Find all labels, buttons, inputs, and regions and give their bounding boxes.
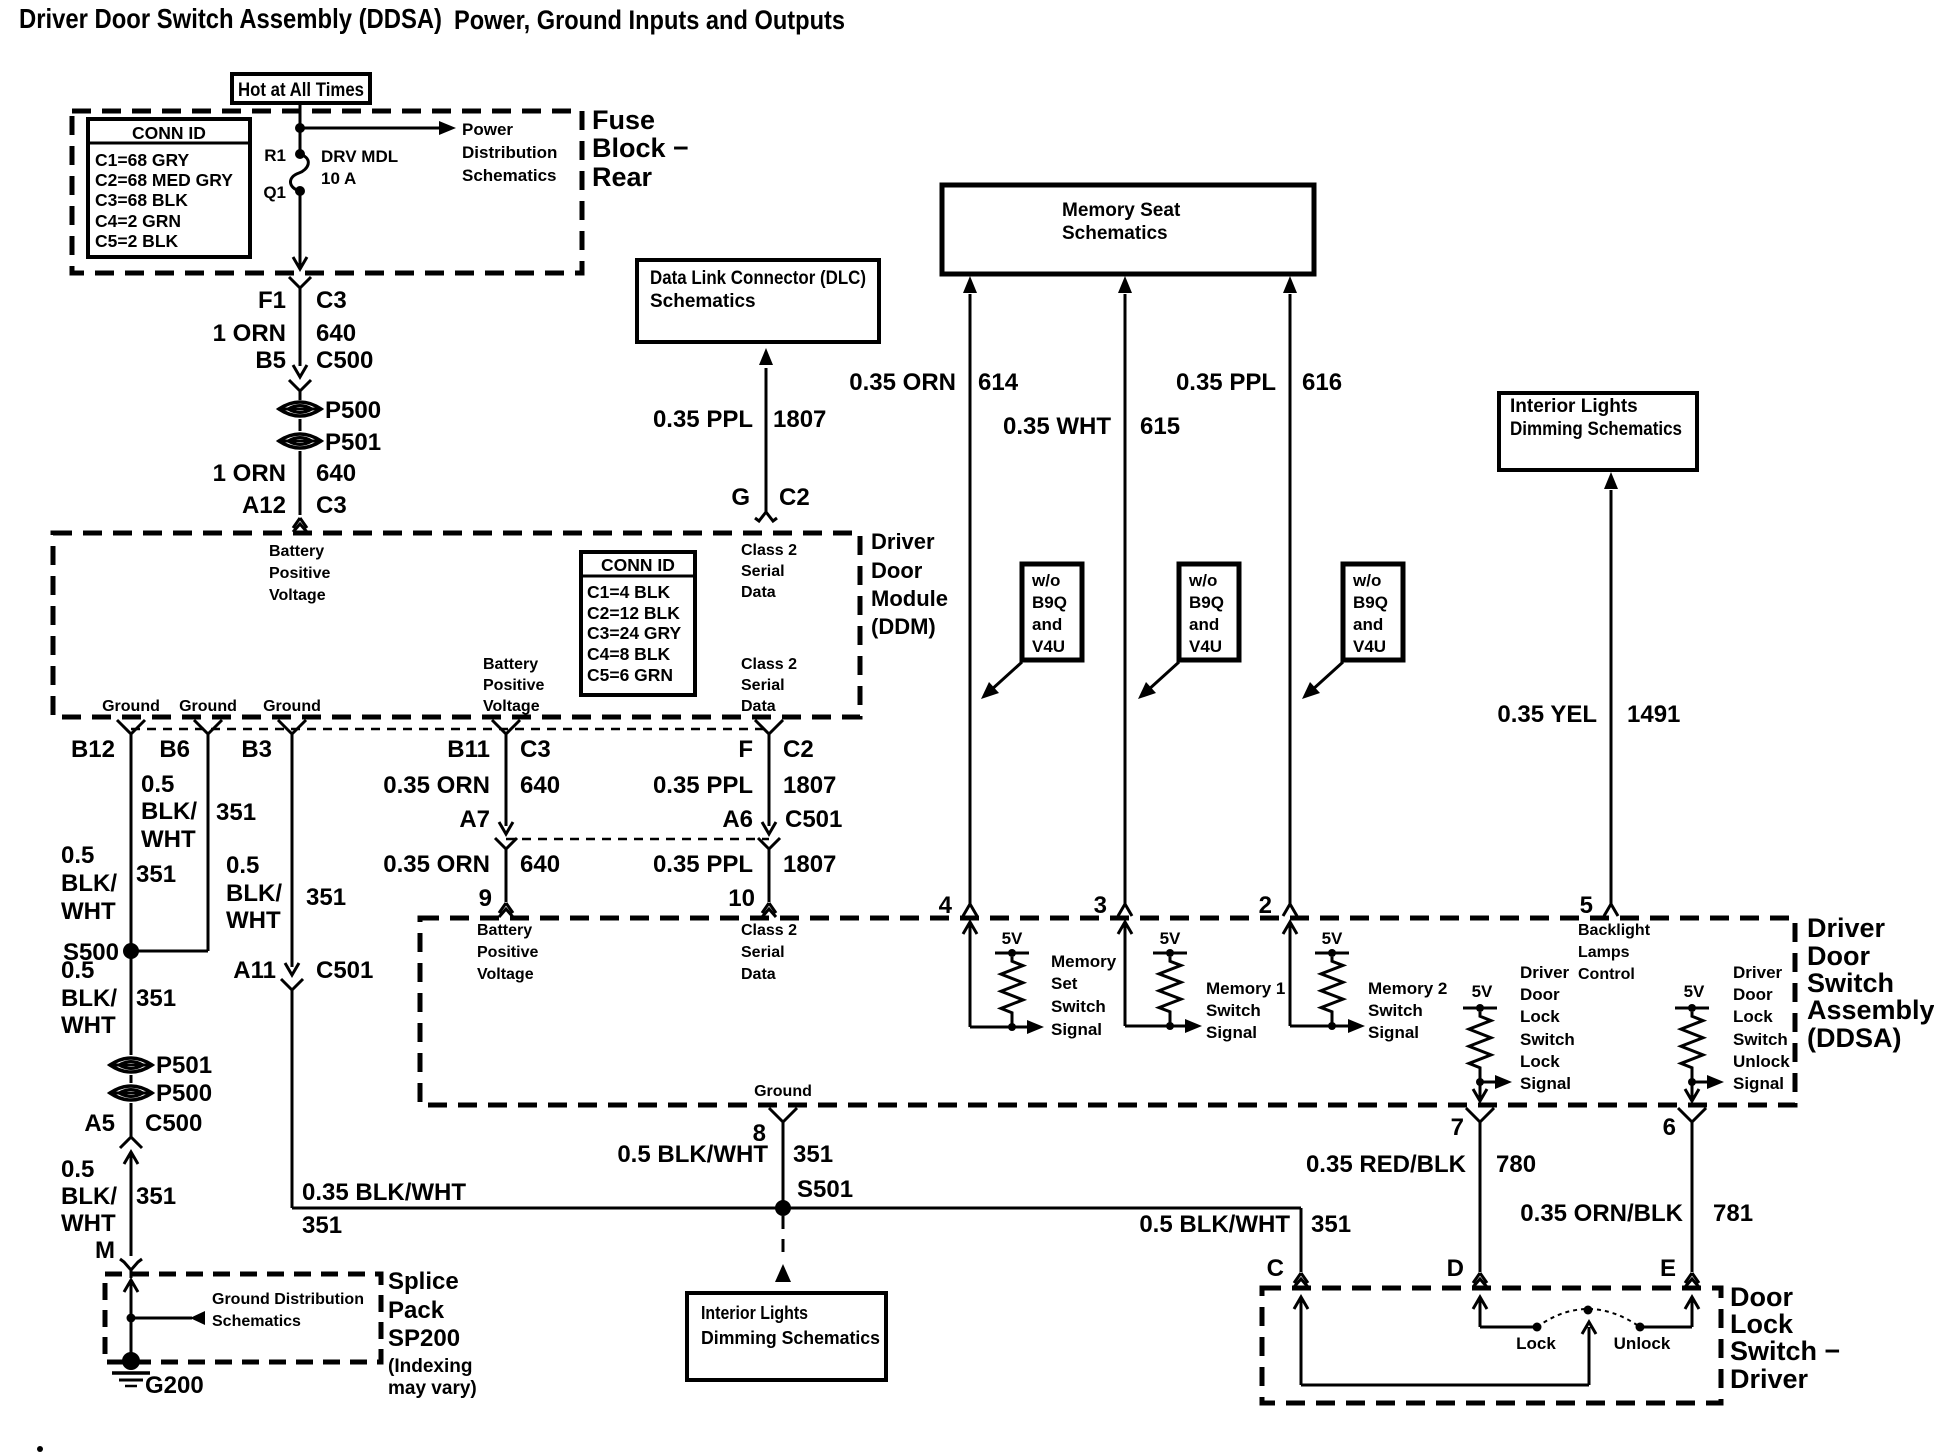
svg-text:Signal: Signal <box>1520 1074 1571 1093</box>
svg-text:Data Link Connector (DLC): Data Link Connector (DLC) <box>650 268 866 289</box>
svg-text:Signal: Signal <box>1368 1023 1419 1042</box>
svg-text:5V: 5V <box>1684 982 1705 1001</box>
option tag w/o B9Q and V4U (2) <box>1179 564 1239 660</box>
svg-text:640: 640 <box>316 460 356 487</box>
svg-text:Fuse: Fuse <box>592 105 655 135</box>
reference arrow to ground distribution schematics <box>131 1317 192 1320</box>
wire F1 to B5 labels 1 ORN 640 <box>299 288 302 366</box>
svg-text:Switch −: Switch − <box>1730 1336 1840 1366</box>
svg-text:351: 351 <box>136 861 176 888</box>
svg-text:C5=6 GRN: C5=6 GRN <box>587 665 673 685</box>
svg-text:C3: C3 <box>520 736 551 763</box>
svg-text:0.5: 0.5 <box>141 771 174 798</box>
inline connector row C501 dashed line <box>506 838 769 841</box>
svg-text:Signal: Signal <box>1733 1074 1784 1093</box>
wire E to unlock contact <box>1685 1297 1699 1309</box>
switch pivot arm <box>1588 1327 1591 1385</box>
svg-text:C2=12 BLK: C2=12 BLK <box>587 603 680 623</box>
svg-text:616: 616 <box>1302 369 1342 396</box>
pin D into door lock switch <box>1473 1273 1480 1283</box>
svg-text:P500: P500 <box>325 397 381 424</box>
svg-text:(DDSA): (DDSA) <box>1807 1023 1902 1053</box>
svg-text:Ground Distribution: Ground Distribution <box>212 1291 364 1308</box>
svg-text:C3: C3 <box>316 287 347 314</box>
svg-text:B9Q: B9Q <box>1032 593 1067 612</box>
connector F C2 on DDM bottom <box>755 720 769 734</box>
node junction splice pack <box>127 1314 136 1323</box>
svg-text:Door: Door <box>1733 985 1773 1004</box>
svg-text:Dimming Schematics: Dimming Schematics <box>701 1327 880 1348</box>
connector B5 C500 <box>293 365 307 377</box>
splice S500 <box>123 943 139 959</box>
svg-text:10: 10 <box>728 885 755 912</box>
pin 7 connector below DDSA <box>1466 1108 1480 1122</box>
svg-text:C4=8 BLK: C4=8 BLK <box>587 644 671 664</box>
svg-text:351: 351 <box>216 799 256 826</box>
svg-text:Driver: Driver <box>1733 963 1783 982</box>
svg-text:P500: P500 <box>156 1080 212 1107</box>
connector G C2 on DDM top <box>755 512 766 521</box>
svg-text:351: 351 <box>793 1141 833 1168</box>
svg-text:Splice: Splice <box>388 1268 459 1295</box>
wire unlock signal to pin 6 <box>1685 1089 1699 1101</box>
wire into grommets <box>299 391 302 400</box>
svg-text:Data: Data <box>741 698 776 715</box>
svg-text:0.35 PPL: 0.35 PPL <box>653 851 753 878</box>
svg-text:M: M <box>95 1237 115 1264</box>
wire P501 to A12 labels 1 ORN 640 <box>299 451 302 515</box>
svg-text:Signal: Signal <box>1051 1020 1102 1039</box>
svg-text:and: and <box>1032 615 1062 634</box>
svg-text:Data: Data <box>741 966 776 983</box>
wire class 2 serial data to DLC labels 0.35 PPL 1807 <box>765 368 768 512</box>
svg-text:780: 780 <box>1496 1151 1536 1178</box>
svg-text:C3: C3 <box>316 492 347 519</box>
svg-text:B12: B12 <box>71 736 115 763</box>
svg-text:Switch: Switch <box>1206 1001 1261 1020</box>
svg-text:Schematics: Schematics <box>1062 223 1168 244</box>
wire S500 to grommets labels 0.5 BLK/WHT 351 <box>130 951 133 1055</box>
svg-text:Ground: Ground <box>754 1083 812 1100</box>
fuse R1 DRV MDL 10 A <box>295 149 305 159</box>
wire branch to Power Distribution Schematics with arrow <box>300 127 440 130</box>
driver door module DDM dashed box <box>53 533 860 717</box>
svg-text:1807: 1807 <box>783 851 836 878</box>
svg-text:0.35 ORN: 0.35 ORN <box>849 369 956 396</box>
svg-text:Driver: Driver <box>1807 913 1886 943</box>
svg-text:A7: A7 <box>459 806 490 833</box>
svg-text:A6: A6 <box>722 806 753 833</box>
svg-text:A12: A12 <box>242 492 286 519</box>
svg-text:Signal: Signal <box>1206 1023 1257 1042</box>
svg-text:Positive: Positive <box>483 677 544 694</box>
svg-text:B3: B3 <box>241 736 272 763</box>
svg-text:5V: 5V <box>1160 929 1181 948</box>
svg-text:0.35 PPL: 0.35 PPL <box>1176 369 1276 396</box>
svg-text:0.5: 0.5 <box>61 957 94 984</box>
wire bend to pin C labels 0.5 BLK/WHT 351 <box>1300 1208 1303 1272</box>
wire F to A6 labels 0.35 PPL 1807 <box>768 732 771 826</box>
svg-text:C2: C2 <box>779 484 810 511</box>
svg-text:V4U: V4U <box>1032 637 1065 656</box>
wire A6 to pin 10 labels 0.35 PPL 1807 <box>768 849 771 902</box>
svg-text:1807: 1807 <box>783 772 836 799</box>
node lock contact <box>1533 1323 1542 1332</box>
svg-text:10 A: 10 A <box>321 169 356 188</box>
svg-text:0.35 WHT: 0.35 WHT <box>1003 413 1111 440</box>
svg-text:Door: Door <box>1520 985 1560 1004</box>
svg-text:Hot at All Times: Hot at All Times <box>238 80 364 101</box>
svg-text:Control: Control <box>1578 966 1635 983</box>
svg-text:C3=68 BLK: C3=68 BLK <box>95 190 188 210</box>
svg-text:0.5 BLK/WHT: 0.5 BLK/WHT <box>617 1141 768 1168</box>
svg-text:3: 3 <box>1094 892 1107 919</box>
svg-text:A11: A11 <box>233 957 276 984</box>
svg-text:C2=68 MED GRY: C2=68 MED GRY <box>95 170 233 190</box>
fuse block - rear dashed box <box>72 111 582 273</box>
wire C common inside door lock switch <box>1294 1297 1308 1309</box>
svg-text:C500: C500 <box>145 1110 202 1137</box>
svg-text:E: E <box>1660 1255 1676 1282</box>
svg-text:Dimming Schematics: Dimming Schematics <box>1510 419 1682 440</box>
svg-text:Unlock: Unlock <box>1733 1052 1790 1071</box>
svg-text:WHT: WHT <box>61 1210 116 1237</box>
wire A7 to pin 9 labels 0.35 ORN 640 <box>505 849 508 902</box>
decorative dot <box>37 1446 43 1452</box>
splice pack SP200 dashed box <box>105 1274 381 1362</box>
grommet P501 (left) <box>110 1058 152 1072</box>
svg-text:V4U: V4U <box>1353 637 1386 656</box>
wire fuse output down to box edge <box>299 191 302 268</box>
svg-text:0.35 ORN/BLK: 0.35 ORN/BLK <box>1520 1200 1683 1227</box>
svg-text:F: F <box>738 736 753 763</box>
ground G200 <box>122 1352 140 1370</box>
svg-text:0.35 ORN: 0.35 ORN <box>383 851 490 878</box>
connector A7 C501 <box>499 822 513 834</box>
svg-text:351: 351 <box>136 985 176 1012</box>
svg-text:Set: Set <box>1051 974 1078 993</box>
svg-text:BLK/: BLK/ <box>61 1183 117 1210</box>
svg-text:V4U: V4U <box>1189 637 1222 656</box>
svg-text:2: 2 <box>1259 892 1272 919</box>
svg-text:C501: C501 <box>785 806 842 833</box>
connector M into splice pack <box>120 1259 131 1270</box>
wire pin 8 to splice S501 labels 0.5 BLK/WHT 351 <box>782 1120 785 1208</box>
svg-text:Class 2: Class 2 <box>741 656 797 673</box>
switch throw dashed arc <box>1537 1309 1640 1327</box>
svg-text:640: 640 <box>520 851 560 878</box>
svg-text:Memory Seat: Memory Seat <box>1062 200 1181 221</box>
table CONN ID (DDM) <box>581 552 695 695</box>
connector B11 C3 on DDM bottom <box>492 720 506 734</box>
pin A12 C3 into DDM <box>293 518 300 528</box>
svg-text:Lock: Lock <box>1516 1334 1556 1353</box>
svg-text:Memory: Memory <box>1051 952 1117 971</box>
svg-text:5V: 5V <box>1002 929 1023 948</box>
unlock signal output arrow <box>1692 1081 1710 1084</box>
pin 8 ground connector below DDSA <box>769 1108 783 1122</box>
svg-text:C501: C501 <box>316 957 373 984</box>
svg-text:0.35 PPL: 0.35 PPL <box>653 772 753 799</box>
svg-text:Voltage: Voltage <box>483 698 540 715</box>
svg-text:640: 640 <box>316 320 356 347</box>
svg-text:Lock: Lock <box>1520 1007 1560 1026</box>
svg-text:9: 9 <box>479 885 492 912</box>
svg-text:Positive: Positive <box>269 565 330 582</box>
connector B3 on DDM bottom <box>278 720 292 734</box>
svg-text:B11: B11 <box>447 736 490 763</box>
connector A6 C501 <box>762 822 776 834</box>
svg-text:WHT: WHT <box>61 1012 116 1039</box>
svg-text:Distribution: Distribution <box>462 143 557 162</box>
svg-text:B9Q: B9Q <box>1353 593 1388 612</box>
pin 6 connector below DDSA <box>1678 1108 1692 1122</box>
svg-text:C: C <box>1267 1255 1284 1282</box>
svg-text:Switch: Switch <box>1733 1030 1788 1049</box>
svg-text:B6: B6 <box>159 736 190 763</box>
svg-text:C4=2 GRN: C4=2 GRN <box>95 211 181 231</box>
wire B6 to S500 labels 0.5 BLK/WHT 351 <box>207 732 210 951</box>
svg-text:CONN ID: CONN ID <box>132 123 206 143</box>
svg-text:Door: Door <box>871 558 923 583</box>
wire D to lock contact <box>1473 1297 1487 1309</box>
wire memory 1 switch signal 0.35 WHT 615 pin 3 <box>1118 276 1132 293</box>
grommet P500 <box>279 402 321 416</box>
wire pin 7 to D labels 0.35 RED/BLK 780 <box>1479 1120 1482 1272</box>
node Data Link Connector DLC Schematics <box>637 260 879 342</box>
grommet P500 (left) <box>110 1086 152 1100</box>
memory set switch input wire and arrow <box>963 922 977 934</box>
svg-text:w/o: w/o <box>1188 571 1217 590</box>
svg-text:Serial: Serial <box>741 677 785 694</box>
svg-text:G200: G200 <box>145 1372 204 1399</box>
memory 2 switch input wire and arrow <box>1283 922 1297 934</box>
option tag w/o B9Q and V4U (1) <box>1022 564 1082 660</box>
svg-text:may vary): may vary) <box>388 1378 477 1399</box>
svg-text:WHT: WHT <box>61 898 116 925</box>
svg-text:Lock: Lock <box>1733 1007 1773 1026</box>
svg-text:Class 2: Class 2 <box>741 542 797 559</box>
svg-text:Driver Door Switch Assembly (D: Driver Door Switch Assembly (DDSA) <box>19 3 442 34</box>
pin 9 into DDSA <box>499 903 506 913</box>
svg-text:B9Q: B9Q <box>1189 593 1224 612</box>
wire memory set switch signal 0.35 ORN 614 pin 4 <box>963 276 977 293</box>
svg-text:Switch: Switch <box>1807 968 1894 998</box>
svg-text:351: 351 <box>306 884 346 911</box>
connector A5 C500 <box>124 1152 138 1164</box>
svg-text:Assembly: Assembly <box>1807 995 1934 1025</box>
wire pin 6 to E labels 0.35 ORN/BLK 781 <box>1691 1120 1694 1272</box>
wire A11 down to ground bus <box>291 990 294 1208</box>
connector B12 on DDM bottom <box>117 720 131 734</box>
svg-text:C5=2 BLK: C5=2 BLK <box>95 231 179 251</box>
svg-text:0.5 BLK/WHT: 0.5 BLK/WHT <box>1139 1211 1290 1238</box>
wire memory 2 switch signal 0.35 PPL 616 pin 2 <box>1283 276 1297 293</box>
wire hot feed into fuse block <box>299 103 302 154</box>
svg-text:w/o: w/o <box>1031 571 1060 590</box>
svg-text:6: 6 <box>1663 1114 1676 1141</box>
node unlock contact <box>1636 1323 1645 1332</box>
pin 10 into DDSA <box>762 903 769 913</box>
svg-text:Switch: Switch <box>1520 1030 1575 1049</box>
svg-text:Voltage: Voltage <box>269 587 326 604</box>
svg-text:0.35 PPL: 0.35 PPL <box>653 406 753 433</box>
node Hot at All Times <box>232 74 370 103</box>
svg-text:351: 351 <box>302 1212 342 1239</box>
dashed reference wire to interior lights dimming <box>782 1216 785 1258</box>
svg-text:WHT: WHT <box>141 826 196 853</box>
svg-text:Pack: Pack <box>388 1297 445 1324</box>
grommet P501 <box>279 434 321 448</box>
wire B11 to A7 labels 0.35 ORN 640 <box>505 732 508 826</box>
svg-text:615: 615 <box>1140 413 1180 440</box>
svg-text:5: 5 <box>1580 892 1593 919</box>
svg-text:351: 351 <box>136 1183 176 1210</box>
splice S501 <box>775 1200 791 1216</box>
svg-text:Rear: Rear <box>592 162 653 192</box>
svg-text:DRV MDL: DRV MDL <box>321 147 398 166</box>
svg-text:SP200: SP200 <box>388 1325 460 1352</box>
svg-text:1 ORN: 1 ORN <box>213 320 286 347</box>
svg-text:Memory 2: Memory 2 <box>1368 979 1447 998</box>
svg-text:640: 640 <box>520 772 560 799</box>
wire between left grommets <box>130 1075 133 1083</box>
pin C into door lock switch <box>1294 1273 1301 1283</box>
svg-text:and: and <box>1189 615 1219 634</box>
svg-text:Block −: Block − <box>592 133 689 163</box>
node Interior Lights Dimming Schematics (lower) <box>687 1293 886 1380</box>
svg-text:w/o: w/o <box>1352 571 1381 590</box>
inline connector row C500 dashed line <box>131 728 769 731</box>
svg-text:7: 7 <box>1451 1114 1464 1141</box>
svg-text:Lock: Lock <box>1520 1052 1560 1071</box>
svg-text:Unlock: Unlock <box>1614 1334 1671 1353</box>
svg-text:614: 614 <box>978 369 1019 396</box>
svg-text:BLK/: BLK/ <box>226 880 282 907</box>
svg-text:Memory 1: Memory 1 <box>1206 979 1285 998</box>
svg-text:Switch: Switch <box>1051 997 1106 1016</box>
svg-text:CONN ID: CONN ID <box>601 555 675 575</box>
svg-text:351: 351 <box>1311 1211 1351 1238</box>
wire lock signal to pin 7 <box>1473 1089 1487 1101</box>
svg-text:Module: Module <box>871 586 948 611</box>
svg-text:P501: P501 <box>156 1052 212 1079</box>
svg-text:and: and <box>1353 615 1383 634</box>
svg-text:Schematics: Schematics <box>212 1313 301 1330</box>
svg-text:5V: 5V <box>1322 929 1343 948</box>
svg-text:1491: 1491 <box>1627 701 1680 728</box>
svg-text:C500: C500 <box>316 347 373 374</box>
svg-text:Power: Power <box>462 120 513 139</box>
svg-text:4: 4 <box>939 892 953 919</box>
svg-text:0.35 BLK/WHT: 0.35 BLK/WHT <box>302 1179 466 1206</box>
door lock switch driver dashed box <box>1262 1288 1721 1403</box>
lock signal output arrow <box>1480 1081 1498 1084</box>
svg-text:Door: Door <box>1730 1282 1793 1312</box>
svg-text:0.5: 0.5 <box>61 1156 94 1183</box>
svg-text:A5: A5 <box>84 1110 115 1137</box>
svg-text:G: G <box>731 484 750 511</box>
svg-text:Ground: Ground <box>263 698 321 715</box>
svg-text:Battery: Battery <box>269 543 324 560</box>
svg-text:(Indexing: (Indexing <box>388 1356 472 1377</box>
svg-text:Serial: Serial <box>741 563 785 580</box>
svg-text:C1=68 GRY: C1=68 GRY <box>95 150 190 170</box>
connector F1 C3 <box>289 277 300 288</box>
svg-text:Lamps: Lamps <box>1578 944 1630 961</box>
svg-text:BLK/: BLK/ <box>61 985 117 1012</box>
connector A11 C501 <box>285 963 299 975</box>
svg-text:1 ORN: 1 ORN <box>213 460 286 487</box>
svg-text:Data: Data <box>741 584 776 601</box>
node junction at power branch <box>295 123 305 133</box>
svg-text:D: D <box>1447 1255 1464 1282</box>
node Memory Seat Schematics <box>942 185 1314 274</box>
svg-text:Battery: Battery <box>483 656 538 673</box>
table CONN ID (fuse block) <box>88 119 250 257</box>
node Interior Lights Dimming Schematics (upper) <box>1499 393 1697 470</box>
svg-text:P501: P501 <box>325 429 381 456</box>
svg-text:Positive: Positive <box>477 944 538 961</box>
wire B12 to S500 labels 0.5 BLK/WHT 351 <box>130 732 133 951</box>
svg-text:Q1: Q1 <box>263 183 286 202</box>
svg-text:Driver: Driver <box>871 529 935 554</box>
connector B6 on DDM bottom <box>194 720 208 734</box>
svg-text:Class 2: Class 2 <box>741 922 797 939</box>
svg-text:0.5: 0.5 <box>61 842 94 869</box>
svg-text:WHT: WHT <box>226 907 281 934</box>
wire B3 to A11 labels 0.5 BLK/WHT 351 <box>291 732 294 967</box>
svg-text:0.35 ORN: 0.35 ORN <box>383 772 490 799</box>
svg-text:BLK/: BLK/ <box>61 870 117 897</box>
wire inside splice pack to G200 <box>124 1280 138 1292</box>
svg-text:BLK/: BLK/ <box>141 798 197 825</box>
wire between grommets <box>299 419 302 431</box>
svg-text:Driver: Driver <box>1520 963 1570 982</box>
svg-text:1807: 1807 <box>773 406 826 433</box>
svg-text:0.5: 0.5 <box>226 852 259 879</box>
svg-text:5V: 5V <box>1472 982 1493 1001</box>
svg-text:Serial: Serial <box>741 944 785 961</box>
svg-text:0.35 RED/BLK: 0.35 RED/BLK <box>1306 1151 1467 1178</box>
wire backlight lamps control 0.35 YEL 1491 pin 5 <box>1604 472 1618 489</box>
svg-text:Driver: Driver <box>1730 1364 1809 1394</box>
option tag w/o B9Q and V4U (3) <box>1343 564 1403 660</box>
svg-text:0.35 YEL: 0.35 YEL <box>1497 701 1597 728</box>
svg-text:Power, Ground Inputs and Outpu: Power, Ground Inputs and Outputs <box>454 5 845 35</box>
svg-text:(DDM): (DDM) <box>871 614 936 639</box>
svg-text:Ground: Ground <box>102 698 160 715</box>
svg-text:C2: C2 <box>783 736 814 763</box>
svg-text:Lock: Lock <box>1730 1309 1794 1339</box>
svg-text:Switch: Switch <box>1368 1001 1423 1020</box>
wire grommet to A5 <box>130 1103 133 1138</box>
svg-text:Door: Door <box>1807 941 1870 971</box>
svg-text:C3=24 GRY: C3=24 GRY <box>587 623 682 643</box>
svg-text:Schematics: Schematics <box>650 291 756 312</box>
svg-text:Interior Lights: Interior Lights <box>1510 396 1638 417</box>
svg-text:781: 781 <box>1713 1200 1753 1227</box>
svg-text:Schematics: Schematics <box>462 166 557 185</box>
svg-text:R1: R1 <box>264 146 286 165</box>
pin E into door lock switch <box>1685 1273 1692 1283</box>
svg-text:Interior Lights: Interior Lights <box>701 1302 808 1323</box>
svg-text:Battery: Battery <box>477 922 532 939</box>
svg-text:Voltage: Voltage <box>477 966 534 983</box>
svg-text:Ground: Ground <box>179 698 237 715</box>
wire A5 to M labels 0.5 BLK/WHT 351 <box>130 1153 133 1256</box>
ground bus wire labels 0.35 BLK/WHT 351 <box>292 1207 1301 1210</box>
